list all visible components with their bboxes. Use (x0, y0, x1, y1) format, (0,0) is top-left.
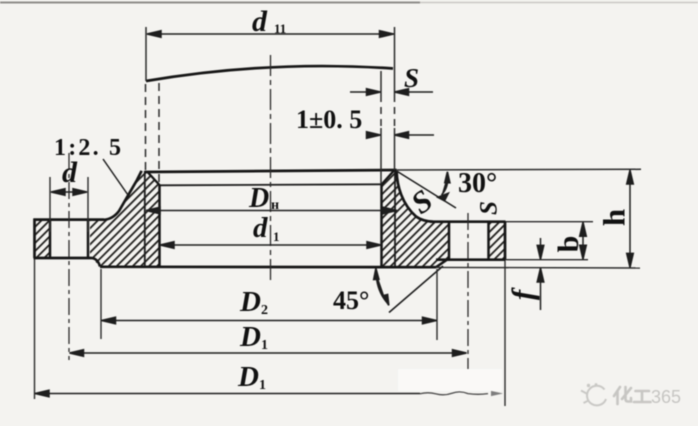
30 degree bevel line (397, 171, 456, 208)
left bore chamfer (148, 172, 160, 185)
hatched section: right hub + pipe wall + plate (382, 171, 450, 268)
svg-text:f: f (505, 287, 540, 300)
hatched section: right outer ring strip (489, 222, 506, 260)
flange outline: bottom face left (34, 257, 93, 260)
svg-text:1±0. 5: 1±0. 5 (296, 105, 362, 134)
neck top face line (145, 170, 397, 172)
svg-text:d: d (252, 5, 268, 38)
left bore wall (158, 185, 161, 267)
svg-text:2: 2 (261, 303, 268, 318)
right bolt hole centerline (467, 213, 469, 369)
right bolt hole left edge (448, 222, 451, 260)
svg-text:30°: 30° (458, 168, 497, 199)
svg-text:1: 1 (273, 229, 280, 244)
dimension D1 (bolt circle) (70, 350, 467, 357)
dimension D1 (outer diameter) (35, 390, 420, 397)
dimension d (bolt hole) (50, 177, 88, 232)
svg-text:S: S (476, 201, 503, 215)
left pipe wall hidden (dashed) above flange (145, 84, 147, 170)
hatched section: left hub + pipe wall + plate (90, 171, 160, 267)
svg-text:11: 11 (274, 21, 286, 36)
scan top border line (0, 2, 420, 4)
svg-text:b: b (552, 236, 585, 253)
raised face bottom extension right for f,h (436, 266, 640, 269)
dimension D2 (101, 269, 437, 340)
svg-text:D: D (239, 286, 261, 318)
flange outline: right outer edge (504, 222, 507, 260)
watermark logo (581, 383, 606, 405)
svg-text:н: н (271, 198, 279, 213)
left pipe bore hidden (dashed) above flange (158, 83, 160, 184)
pipe left outer wall inside hub (144, 171, 146, 266)
raised face bottom line (100, 265, 436, 268)
dimension 1±0.5 arrows (367, 132, 435, 139)
dimension Dn line (146, 207, 397, 214)
bottom right extension for b,f (506, 259, 589, 261)
right bore wall (380, 185, 383, 268)
right pipe bore line above flange (380, 71, 382, 184)
flange top face right (430, 220, 506, 223)
svg-text:1: 1 (261, 338, 268, 353)
dimension f (537, 238, 544, 310)
30 degree arc with arrows (438, 172, 450, 201)
svg-text:D: D (239, 321, 261, 353)
svg-text:S: S (404, 63, 419, 93)
bolt hole left edge (49, 220, 52, 258)
flange outline: bottom face right (436, 258, 506, 261)
svg-text:h: h (597, 209, 632, 226)
left weld/hub profile (1:2.5 taper) (104, 171, 142, 220)
top face extension to the right (h reference) (397, 168, 641, 171)
svg-text:365: 365 (651, 387, 681, 407)
right pipe outer wall inside hub (394, 171, 396, 266)
right weld profile (397, 171, 433, 222)
bore inner edge line (160, 184, 383, 185)
hatched section: left outer ring strip (35, 220, 50, 258)
d11 left extension line (145, 27, 147, 81)
center line of flange (270, 55, 272, 281)
left bolt hole centerline (68, 153, 70, 360)
dimension b (580, 222, 587, 259)
dimension d1 line (160, 242, 381, 249)
svg-text:D: D (248, 183, 269, 214)
dimension h (627, 170, 634, 267)
top face right extension for b (506, 221, 594, 223)
svg-text:45°: 45° (333, 286, 369, 315)
flange outline: left outer edge (33, 219, 36, 259)
45 degree chamfer line (389, 266, 443, 313)
right bore chamfer (382, 171, 395, 185)
right bolt hole right edge (487, 222, 490, 260)
bolt hole right edge (87, 220, 90, 258)
flange OD extension lines (35, 259, 506, 406)
dimension d11 line with arrows (147, 31, 394, 38)
45 degree arc with arrows (374, 268, 389, 305)
right step raised face (436, 260, 447, 268)
svg-text:1: 1 (259, 378, 266, 393)
erased patch with hand-redrawn line (398, 369, 502, 391)
svg-text:D: D (237, 361, 259, 393)
pipe flared end curve (146, 66, 393, 81)
flange outline: left step to raised face (92, 258, 100, 267)
flange outline: top face left (34, 218, 105, 221)
watermark text 化工365 (614, 387, 651, 404)
dimension S (pipe wall) arrows (350, 89, 433, 96)
svg-text:d: d (62, 156, 78, 189)
svg-text:d: d (253, 212, 268, 244)
right pipe outer wall / d11 extension line (394, 27, 396, 170)
